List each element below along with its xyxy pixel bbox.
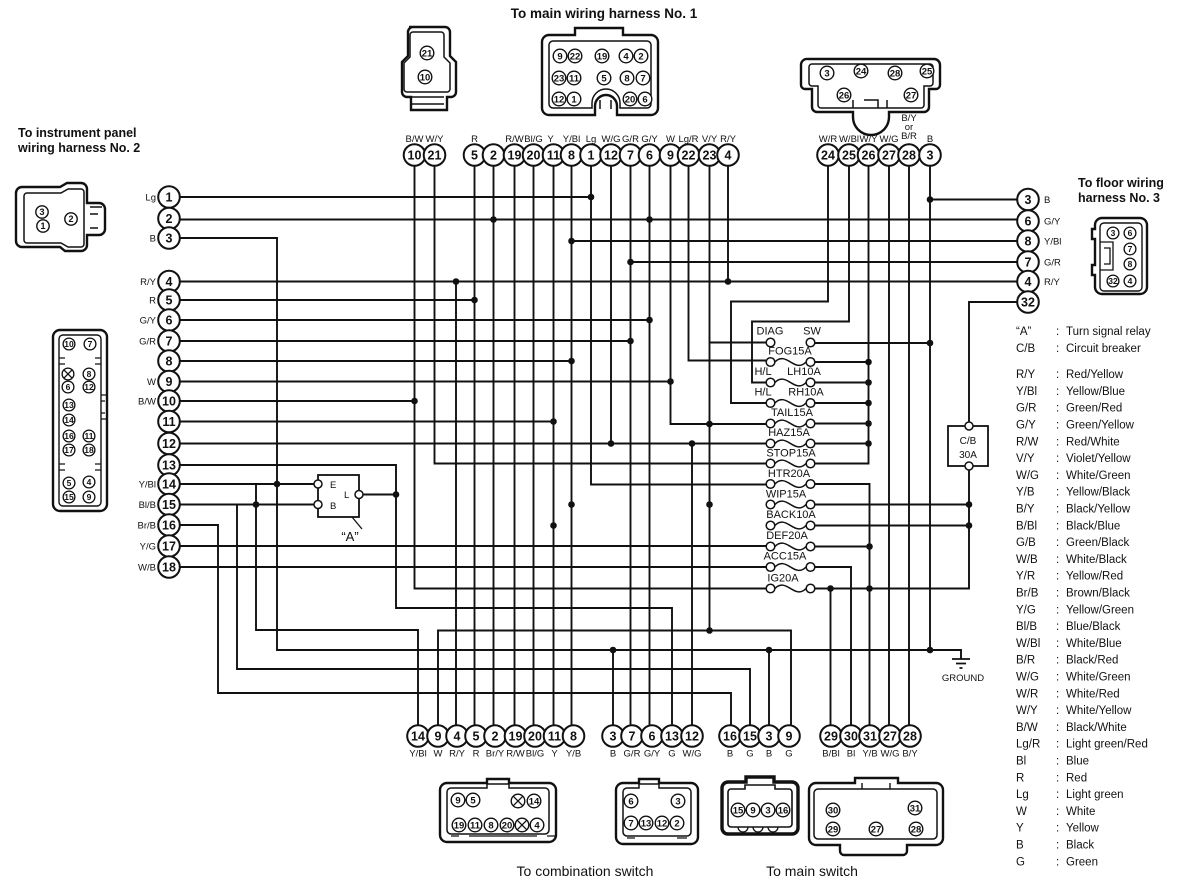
- svg-text:8: 8: [1025, 235, 1032, 249]
- svg-text:Y/Bl: Y/Bl: [1044, 237, 1061, 248]
- svg-text:W/Bl: W/Bl: [839, 134, 859, 145]
- connector: tall 16-pin left: [53, 330, 107, 511]
- svg-text:G/R: G/R: [1044, 258, 1061, 269]
- wire ACC fuse output down to bottom-30: [815, 567, 851, 725]
- svg-text:3: 3: [1025, 193, 1032, 207]
- terminal top-11: [543, 134, 565, 166]
- wire top-20 to bottom-20: [533, 166, 535, 725]
- svg-text:DEF20A: DEF20A: [766, 530, 808, 542]
- svg-text:To floor wiring: To floor wiring: [1078, 176, 1164, 190]
- svg-text:11: 11: [470, 820, 481, 831]
- svg-text:23: 23: [703, 149, 717, 163]
- terminal bottom-15 (G): [739, 725, 761, 759]
- terminal top-27: [878, 134, 900, 166]
- terminal left-11: [158, 411, 180, 433]
- svg-text:Yellow/Black: Yellow/Black: [1066, 487, 1130, 499]
- svg-text:5: 5: [471, 149, 478, 163]
- svg-text:B/Y: B/Y: [902, 749, 918, 760]
- wire LH fuse output: [815, 382, 869, 384]
- svg-text::: :: [1056, 326, 1059, 338]
- ground symbol: [942, 659, 984, 684]
- svg-text:6: 6: [646, 149, 653, 163]
- svg-text:9: 9: [435, 730, 442, 744]
- svg-text:White/Red: White/Red: [1066, 688, 1120, 700]
- wire top-26 W/Y lighting bus: [815, 166, 872, 464]
- svg-text:18: 18: [84, 445, 94, 455]
- svg-text:2: 2: [674, 818, 679, 829]
- svg-text:R/Y: R/Y: [1016, 369, 1036, 381]
- wire top-2 to bottom-2: [493, 166, 495, 725]
- svg-text:G/Y: G/Y: [1016, 420, 1036, 432]
- terminal bottom-9 (G): [778, 725, 800, 759]
- svg-text:White/Blue: White/Blue: [1066, 638, 1122, 650]
- svg-text:B/W: B/W: [138, 397, 156, 408]
- svg-text:E: E: [330, 480, 336, 491]
- svg-text:23: 23: [554, 73, 565, 84]
- svg-text:7: 7: [628, 818, 633, 829]
- wire left-12 W/G to HAZ fuse: [180, 440, 766, 447]
- terminal left-1: [145, 186, 179, 208]
- svg-text:Y/G: Y/G: [140, 542, 156, 553]
- svg-text:Violet/Yellow: Violet/Yellow: [1066, 453, 1131, 465]
- terminal left-3: [150, 227, 180, 249]
- svg-text:13: 13: [162, 459, 176, 473]
- terminal bottom-28 (B/Y): [899, 725, 921, 759]
- wire BACK fuse output to C/B: [815, 522, 972, 529]
- svg-text:11: 11: [569, 73, 580, 84]
- svg-text:24: 24: [856, 66, 867, 77]
- terminal right-6: [1017, 210, 1061, 232]
- svg-text:G: G: [1016, 856, 1025, 868]
- connector: main switch 5-pin: [809, 778, 943, 855]
- terminal top-10: [404, 134, 426, 166]
- svg-text:White: White: [1066, 806, 1095, 818]
- terminal top-24: [817, 134, 839, 166]
- svg-text:3: 3: [675, 796, 680, 807]
- svg-text:10: 10: [64, 339, 74, 349]
- legend: wire colour code: [1016, 326, 1151, 868]
- circuit breaker C/B 30A: [948, 422, 988, 470]
- svg-text:L: L: [344, 490, 349, 501]
- svg-text:R/Y: R/Y: [449, 749, 466, 760]
- svg-text:Yellow/Green: Yellow/Green: [1066, 604, 1134, 616]
- wire top-10 B/W down to IG fuse feed: [415, 166, 767, 589]
- svg-text:W/G: W/G: [1016, 470, 1039, 482]
- svg-text:26: 26: [862, 149, 876, 163]
- svg-text:W: W: [434, 749, 443, 760]
- svg-text:IG20A: IG20A: [767, 573, 799, 585]
- svg-text:6: 6: [166, 314, 173, 328]
- svg-text:Yellow/Blue: Yellow/Blue: [1066, 386, 1125, 398]
- svg-text:Y/Bl: Y/Bl: [139, 480, 156, 491]
- terminal top-26: [858, 134, 880, 166]
- svg-text:FOG15A: FOG15A: [768, 346, 812, 358]
- svg-text::: :: [1056, 756, 1059, 768]
- svg-text:G/Y: G/Y: [644, 749, 661, 760]
- wire top-11 to bottom-11, feeds BACK fuse: [550, 166, 557, 725]
- svg-text:Green/Yellow: Green/Yellow: [1066, 420, 1135, 432]
- svg-text:9: 9: [786, 730, 793, 744]
- terminal bottom-30 (Bl): [840, 725, 862, 759]
- wire right-8 Y/Bl: [568, 238, 1017, 245]
- svg-text::: :: [1056, 688, 1059, 700]
- svg-text:B/W: B/W: [1016, 722, 1038, 734]
- wire WIP fuse output to C/B: [815, 501, 972, 508]
- svg-text:R/Y: R/Y: [140, 277, 157, 288]
- wire bottom-29 drop: [830, 589, 832, 726]
- svg-text:Black/Red: Black/Red: [1066, 655, 1118, 667]
- terminal bottom-27 (W/G): [879, 725, 901, 759]
- wire top-7 to bottom-7: [630, 166, 632, 725]
- wire top-3 B down to ground rail: [927, 166, 934, 650]
- wire DIAG test lead: [710, 342, 767, 344]
- connector: 6-pin top-right (pins 3,24,28,25,26,27): [801, 59, 940, 135]
- svg-text:12: 12: [554, 94, 565, 105]
- wire top-21 W/Y down to STOP fuse feed: [435, 166, 767, 464]
- svg-text:Green: Green: [1066, 856, 1098, 868]
- wire top-19 to bottom-19: [514, 166, 516, 725]
- terminal right-7: [1017, 251, 1061, 273]
- svg-text:HTR20A: HTR20A: [768, 468, 811, 480]
- svg-text:R/Y: R/Y: [1044, 277, 1061, 288]
- svg-text::: :: [1056, 537, 1059, 549]
- svg-text:7: 7: [1128, 244, 1133, 254]
- svg-text:15: 15: [733, 805, 744, 816]
- svg-text:8: 8: [624, 73, 629, 84]
- connector: main switch 4-pin: [722, 777, 798, 834]
- svg-text:Brown/Black: Brown/Black: [1066, 588, 1130, 600]
- svg-text:4: 4: [1128, 276, 1133, 286]
- svg-text:3: 3: [927, 149, 934, 163]
- fuse HTR20A: [766, 468, 815, 488]
- svg-text:20: 20: [528, 730, 542, 744]
- terminal left-9: [147, 371, 180, 393]
- svg-text:8: 8: [1128, 259, 1133, 269]
- svg-text:31: 31: [910, 803, 921, 814]
- fuse HAZ15A: [766, 427, 815, 448]
- wire top-23 V/Y down to DIAG and lower junctions: [706, 166, 713, 634]
- svg-text:G/R: G/R: [139, 337, 156, 348]
- svg-text:2: 2: [638, 51, 643, 62]
- svg-text:R/Y: R/Y: [720, 134, 737, 145]
- svg-text:2: 2: [490, 149, 497, 163]
- svg-text:14: 14: [162, 478, 176, 492]
- terminal bottom-4 (R/Y): [446, 725, 468, 759]
- svg-text::: :: [1056, 840, 1059, 852]
- connector: small 2-pin top-left (pins 21,10): [402, 27, 456, 110]
- svg-text:2: 2: [68, 214, 73, 224]
- svg-text:W/Y: W/Y: [860, 134, 879, 145]
- svg-text:Y: Y: [551, 749, 558, 760]
- terminal top-3: [919, 134, 941, 166]
- svg-text:16: 16: [778, 805, 789, 816]
- svg-text:Green/Red: Green/Red: [1066, 403, 1122, 415]
- svg-text:27: 27: [906, 90, 917, 101]
- svg-text:19: 19: [509, 730, 523, 744]
- wire left-17 Y/G to DEF fuse: [180, 545, 766, 547]
- svg-text:“A”: “A”: [1016, 326, 1032, 338]
- svg-text:6: 6: [1025, 215, 1032, 229]
- svg-text:B: B: [766, 749, 772, 760]
- svg-text:16: 16: [64, 431, 74, 441]
- svg-text:R: R: [1016, 772, 1024, 784]
- svg-text::: :: [1056, 504, 1059, 516]
- svg-text:W/B: W/B: [138, 563, 156, 574]
- svg-text:Black/White: Black/White: [1066, 722, 1127, 734]
- terminal top-9: [660, 134, 682, 166]
- svg-text:R/W: R/W: [1016, 436, 1039, 448]
- svg-text:Lg/R: Lg/R: [1016, 739, 1040, 751]
- svg-text:20: 20: [625, 94, 636, 105]
- terminal top-21: [424, 134, 446, 166]
- svg-text:22: 22: [570, 51, 581, 62]
- svg-text:15: 15: [64, 492, 74, 502]
- svg-text:12: 12: [162, 437, 176, 451]
- wire top-5 to bottom-5: [474, 166, 476, 725]
- terminal top-6: [639, 134, 661, 166]
- svg-text::: :: [1056, 403, 1059, 415]
- title: To instrument panel wiring harness No. 2: [17, 126, 140, 155]
- terminal left-5: [149, 289, 180, 311]
- svg-text::: :: [1056, 369, 1059, 381]
- label B/Y or B/R for top-28: [901, 113, 917, 142]
- svg-text:28: 28: [902, 149, 916, 163]
- terminal bottom-3 (B): [602, 725, 624, 759]
- terminal bottom-11 (Y): [544, 725, 566, 759]
- svg-text:DIAG: DIAG: [757, 326, 784, 338]
- svg-text:6: 6: [649, 730, 656, 744]
- svg-text:R/W: R/W: [506, 749, 525, 760]
- svg-text:B/Bl: B/Bl: [1016, 520, 1037, 532]
- svg-text:harness No. 3: harness No. 3: [1078, 191, 1160, 205]
- wire left-3 B: to ground rail and E pin: [180, 238, 961, 659]
- terminal top-22: [678, 134, 700, 166]
- svg-text::: :: [1056, 520, 1059, 532]
- svg-text:4: 4: [87, 477, 92, 487]
- svg-text:7: 7: [1025, 256, 1032, 270]
- svg-text:G/Y: G/Y: [1044, 217, 1061, 228]
- svg-text:24: 24: [821, 149, 835, 163]
- svg-text:Y/Bl: Y/Bl: [563, 134, 580, 145]
- svg-text:3: 3: [824, 68, 829, 79]
- wire left-7 G/R: [180, 338, 634, 345]
- terminal left-17: [140, 535, 180, 557]
- svg-text:Turn signal relay: Turn signal relay: [1066, 326, 1151, 338]
- svg-text:Lg: Lg: [586, 134, 597, 145]
- svg-text::: :: [1056, 436, 1059, 448]
- wire TAIL fuse output: [815, 423, 869, 425]
- svg-text:To combination switch: To combination switch: [517, 863, 654, 879]
- svg-text:B: B: [727, 749, 733, 760]
- svg-text:W/G: W/G: [683, 749, 702, 760]
- svg-text:W/R: W/R: [1016, 688, 1038, 700]
- svg-text:28: 28: [903, 730, 917, 744]
- svg-text:Bl: Bl: [847, 749, 855, 760]
- connector: 12-pin main harness top-center: [542, 28, 658, 115]
- svg-text:W: W: [147, 377, 156, 388]
- svg-text:18: 18: [162, 561, 176, 575]
- svg-text:1: 1: [588, 149, 595, 163]
- svg-text:Y: Y: [1016, 823, 1024, 835]
- terminal bottom-3 (B): [758, 725, 780, 759]
- svg-text:7: 7: [166, 335, 173, 349]
- svg-text:White/Green: White/Green: [1066, 672, 1131, 684]
- svg-text:9: 9: [750, 805, 755, 816]
- connector: combination switch 10-pin: [440, 779, 556, 842]
- svg-text:20: 20: [527, 149, 541, 163]
- svg-text:Br/Y: Br/Y: [486, 749, 505, 760]
- fuse BACK10A: [766, 509, 816, 530]
- svg-text:G/Y: G/Y: [140, 316, 157, 327]
- svg-text:Lg: Lg: [1016, 789, 1029, 801]
- svg-text:W/Y: W/Y: [1016, 705, 1038, 717]
- svg-text:17: 17: [64, 445, 74, 455]
- wire R/Y net: left-4 to right-4: [180, 278, 1017, 285]
- terminal top-8: [561, 134, 583, 166]
- wire bottom-12 riser: [691, 444, 693, 726]
- wire top-25 W/Bl down to LH fuse: [752, 166, 849, 383]
- wire left-5 R: [180, 297, 478, 304]
- svg-text:wiring harness No. 2: wiring harness No. 2: [17, 141, 140, 155]
- svg-text:27: 27: [883, 730, 897, 744]
- wire top-28 to bottom-28: [908, 166, 910, 725]
- terminal bottom-29 (B/Bl): [820, 725, 842, 759]
- svg-text:8: 8: [488, 820, 493, 831]
- wire HAZ fuse output: [815, 443, 869, 445]
- svg-text:29: 29: [824, 730, 838, 744]
- terminal top-23: [699, 134, 721, 166]
- wire left-14 Y/Bl to E pin, branch to bottom-14: [180, 484, 418, 725]
- svg-text:12: 12: [657, 818, 668, 829]
- svg-text:9: 9: [557, 51, 562, 62]
- terminal bottom-7 (G/R): [621, 725, 643, 759]
- svg-text:27: 27: [882, 149, 896, 163]
- svg-text:B: B: [610, 749, 616, 760]
- svg-text:16: 16: [723, 730, 737, 744]
- turn signal relay "A": [314, 475, 363, 544]
- wire left-11: [180, 418, 557, 425]
- svg-text:R/W: R/W: [505, 134, 524, 145]
- svg-text:W/Bl: W/Bl: [1016, 638, 1040, 650]
- svg-text:G/R: G/R: [1016, 403, 1036, 415]
- terminal left-10: [138, 390, 180, 412]
- svg-text::: :: [1056, 470, 1059, 482]
- terminal top-20: [523, 134, 545, 166]
- svg-text:H/L: H/L: [754, 366, 771, 378]
- terminal left-15: [139, 494, 180, 516]
- wire left-13 to relay L and bottom-13: [180, 465, 672, 725]
- fuse ACC15A: [764, 551, 815, 572]
- fuse TAIL15A: [766, 407, 815, 428]
- svg-text:11: 11: [162, 415, 175, 429]
- svg-text:To main wiring harness No. 1: To main wiring harness No. 1: [511, 6, 698, 21]
- svg-text:9: 9: [87, 492, 92, 502]
- svg-text:6: 6: [1128, 228, 1133, 238]
- terminal bottom-16 (B): [719, 725, 741, 759]
- svg-text:G/Y: G/Y: [641, 134, 658, 145]
- wire DEF fuse output: [815, 546, 870, 548]
- svg-text:21: 21: [428, 149, 442, 163]
- svg-text:4: 4: [623, 51, 629, 62]
- svg-text:Blue/Black: Blue/Black: [1066, 621, 1121, 633]
- wire FOG fuse output: [815, 361, 869, 363]
- svg-text:21: 21: [422, 48, 433, 59]
- svg-text::: :: [1056, 672, 1059, 684]
- svg-text:32: 32: [1108, 276, 1118, 286]
- terminal bottom-2 (Br/Y): [484, 725, 506, 759]
- terminal bottom-8 (Y/B): [563, 725, 585, 759]
- fuse FOG15A: [766, 346, 815, 367]
- svg-text:14: 14: [529, 796, 540, 807]
- svg-text:29: 29: [828, 824, 839, 835]
- svg-text:11: 11: [547, 149, 560, 163]
- wire bottom-3 group3 ground riser: [768, 650, 770, 725]
- svg-text:H/L: H/L: [754, 387, 771, 399]
- fuse WIP15A: [766, 489, 815, 509]
- svg-text:13: 13: [665, 730, 679, 744]
- svg-text:4: 4: [725, 149, 732, 163]
- svg-text:2: 2: [166, 212, 173, 226]
- svg-text:R: R: [471, 134, 478, 145]
- svg-text::: :: [1056, 772, 1059, 784]
- wire top-24 W/R down to RH fuse: [731, 166, 828, 403]
- terminal top-2: [483, 144, 505, 166]
- svg-text:7: 7: [640, 73, 645, 84]
- wire bottom-4 riser: [455, 282, 457, 726]
- svg-text::: :: [1056, 588, 1059, 600]
- svg-text::: :: [1056, 739, 1059, 751]
- svg-text:Br/B: Br/B: [1016, 588, 1039, 600]
- svg-text:Y/B: Y/B: [1016, 487, 1035, 499]
- svg-text::: :: [1056, 856, 1059, 868]
- svg-text::: :: [1056, 638, 1059, 650]
- svg-text:11: 11: [548, 730, 561, 744]
- wire left-18 W/B to ACC fuse: [180, 566, 766, 568]
- svg-text:4: 4: [534, 820, 540, 831]
- svg-text::: :: [1056, 705, 1059, 717]
- svg-text:Lg: Lg: [145, 193, 156, 204]
- svg-text:Green/Black: Green/Black: [1066, 537, 1130, 549]
- svg-text:To main switch: To main switch: [766, 863, 858, 879]
- svg-text:B/W: B/W: [406, 134, 424, 145]
- terminal left-6: [140, 309, 180, 331]
- svg-text:V/Y: V/Y: [1016, 453, 1035, 465]
- wire HTR fuse output down to bottom-31: [815, 484, 873, 725]
- terminal bottom-20 (Bl/G): [524, 725, 546, 759]
- svg-text:Red/White: Red/White: [1066, 436, 1120, 448]
- terminal left-13: [158, 454, 180, 476]
- terminal left-14: [139, 473, 180, 495]
- terminal top-7: [620, 134, 642, 166]
- svg-text::: :: [1056, 554, 1059, 566]
- svg-text:28: 28: [911, 824, 922, 835]
- terminal top-4: [717, 134, 739, 166]
- wire top-6 to bottom-6: [649, 166, 651, 725]
- svg-text:B: B: [150, 234, 156, 245]
- svg-text:7: 7: [88, 339, 93, 349]
- wire left-16 Br/B to bottom-16: [180, 525, 731, 725]
- svg-text:Lg/R: Lg/R: [678, 134, 698, 145]
- svg-text:V/Y: V/Y: [702, 134, 718, 145]
- wire top-12 W/G down to wire-12: [610, 166, 612, 444]
- svg-text:5: 5: [67, 478, 72, 488]
- svg-text:LH10A: LH10A: [787, 366, 821, 378]
- terminal right-32: [1017, 291, 1039, 313]
- svg-text:19: 19: [454, 820, 465, 831]
- svg-text::: :: [1056, 386, 1059, 398]
- svg-text::: :: [1056, 343, 1059, 355]
- svg-text:4: 4: [1025, 275, 1032, 289]
